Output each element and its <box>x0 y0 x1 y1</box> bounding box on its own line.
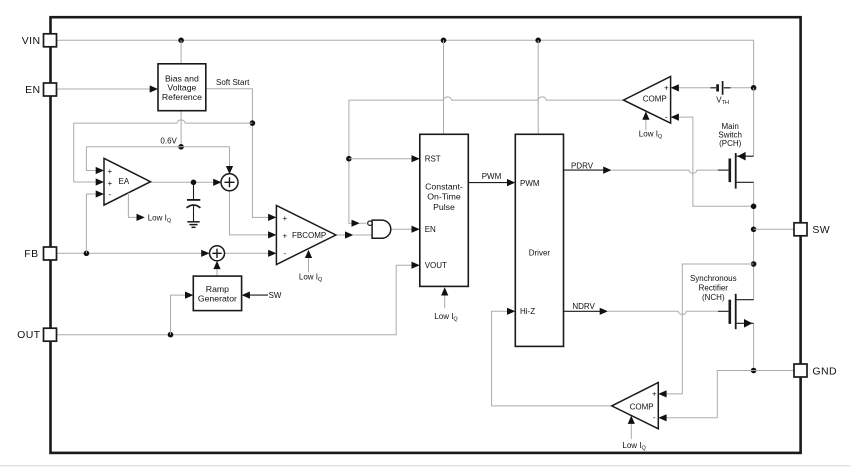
wire COMP1 output to RST and AND gate (hops over VIN drops) <box>349 97 624 227</box>
pin EN <box>25 83 56 96</box>
wire VIN rail <box>57 40 754 88</box>
label Low IQ at COMP1 <box>639 130 663 141</box>
block U3 Driver <box>515 134 563 346</box>
wire Soft Start branch to EA plus2 (hop over Bias drop) <box>74 120 253 186</box>
op-amp EA <box>104 158 151 205</box>
wire S2 input from Ramp Generator <box>213 261 220 276</box>
node GND junction <box>751 368 757 374</box>
summing node S2 <box>210 246 225 261</box>
capacitor C1 <box>187 184 201 221</box>
comparator COMP1 (top) <box>624 77 671 124</box>
pin GND <box>794 364 837 377</box>
transistor Q2 Synchronous Rectifier NCH <box>730 294 754 329</box>
svg-text:COMP: COMP <box>630 402 654 411</box>
svg-text:+: + <box>108 167 113 176</box>
wire 0.6V to EA plus1 <box>86 147 104 174</box>
wire SW stub into Ramp Generator <box>242 292 268 299</box>
svg-text:+: + <box>652 390 657 399</box>
label Main Switch (PCH) <box>718 122 742 148</box>
label PDRV <box>571 161 594 170</box>
wire SW rail upper segment <box>753 88 755 156</box>
svg-text:Generator: Generator <box>198 294 237 304</box>
wire COMP2 Low IQ stub <box>628 416 635 440</box>
svg-text:NDRV: NDRV <box>572 302 595 311</box>
wire COMP1 Low IQ stub <box>642 111 649 130</box>
pin SW <box>794 223 830 236</box>
pin FB <box>24 247 56 260</box>
svg-text:+: + <box>108 179 113 188</box>
wire SW tap to pin <box>754 228 794 230</box>
node SW sense junction <box>751 261 757 267</box>
label Synchronous Rectifier (NCH) <box>690 274 737 302</box>
page edge artifact line at bottom <box>0 465 850 467</box>
wire 0.6V to summing node S1 top <box>226 147 233 175</box>
wire Bias box bottom to 0.6V node <box>180 111 182 147</box>
wire FBCOMP Low IQ stub <box>305 250 312 273</box>
block U1 Bias and Voltage Reference <box>158 64 206 111</box>
node Soft Start junction <box>250 120 256 126</box>
svg-text:0.6V: 0.6V <box>160 136 177 145</box>
svg-text:GND: GND <box>812 365 837 377</box>
svg-text:PWM: PWM <box>482 172 502 181</box>
svg-text:FBCOMP: FBCOMP <box>292 231 326 240</box>
svg-text:OUT: OUT <box>17 329 41 341</box>
svg-text:-: - <box>284 249 287 258</box>
node 0.6V <box>178 144 184 150</box>
wire 0.6V rail <box>86 146 229 148</box>
comparator FBCOMP <box>276 205 336 264</box>
svg-text:-: - <box>653 413 656 422</box>
node PCH drain junction <box>751 204 757 210</box>
and-gate G1 with inverted input <box>368 220 391 238</box>
wire VIN to Bias box top <box>180 40 182 64</box>
wire PDRV from Driver to PCH gate (hop over COMP1 sense) <box>564 167 729 174</box>
node FB junction <box>84 251 90 257</box>
node VIN-Bias junction <box>178 38 184 44</box>
wire COMP1 minus input from SW node <box>671 114 754 207</box>
svg-text:Hi-Z: Hi-Z <box>520 307 535 316</box>
node RST junction <box>346 156 352 162</box>
label Low IQ at FBCOMP <box>299 273 323 284</box>
wire AND output to EN input of COT <box>391 226 420 233</box>
svg-text:VIN: VIN <box>22 35 41 47</box>
svg-text:COMP: COMP <box>643 95 667 104</box>
svg-text:Rectifier: Rectifier <box>699 284 729 293</box>
svg-text:PWM: PWM <box>520 179 540 188</box>
svg-text:Synchronous: Synchronous <box>690 274 737 283</box>
pin VIN <box>22 34 57 47</box>
wire EA output to S1 <box>151 179 222 186</box>
wire SW rail middle segment <box>753 182 755 299</box>
block Ramp Generator <box>193 276 241 311</box>
ground <box>187 222 199 228</box>
label Low IQ at COT <box>434 312 458 323</box>
wire NDRV from Driver to NCH gate (hop over SW sense) <box>564 308 729 315</box>
svg-text:+: + <box>283 232 288 241</box>
node VIN-Driver junction <box>535 38 541 44</box>
label Soft Start <box>216 78 250 87</box>
svg-text:(PCH): (PCH) <box>719 139 742 148</box>
svg-text:+: + <box>664 84 669 93</box>
wire SW sense to COMP2 plus <box>658 264 753 398</box>
wire VIN drop to COT box top <box>443 40 445 134</box>
svg-text:Reference: Reference <box>162 92 202 102</box>
label Low IQ at EA <box>148 213 172 224</box>
wire FBCOMP output to AND gate <box>336 231 372 238</box>
svg-text:-: - <box>109 190 112 199</box>
wire EA Low IQ stub <box>128 193 144 221</box>
label NDRV <box>572 302 595 311</box>
svg-text:Pulse: Pulse <box>433 202 455 212</box>
pin OUT <box>17 328 56 341</box>
svg-text:On-Time: On-Time <box>427 192 461 202</box>
wire COMP1 plus input through VTH battery to VIN rail <box>671 84 754 91</box>
summing node S1 <box>221 174 238 191</box>
svg-text:EN: EN <box>425 225 436 234</box>
wire GND sense to COMP2 minus <box>658 371 753 422</box>
block U2 Constant-On-Time Pulse <box>420 134 469 286</box>
wire S1 output to FBCOMP plus2 <box>230 190 277 238</box>
label 0.6V <box>160 136 177 145</box>
wire VIN drop to Driver box top <box>537 40 539 134</box>
node VTH-VIN junction <box>751 85 757 91</box>
wire RST line into COT <box>349 155 420 162</box>
wire OUT to Ramp Generator input <box>171 292 194 335</box>
wire COT Low IQ stub <box>441 287 448 308</box>
svg-text:PDRV: PDRV <box>571 161 594 170</box>
svg-text:+: + <box>283 214 288 223</box>
node VIN-COT junction <box>441 38 447 44</box>
wire OUT pin to VOUT input of COT <box>57 262 420 335</box>
wire FB pin line <box>57 250 210 257</box>
wire EN pin to Bias box <box>57 85 158 92</box>
svg-text:VOUT: VOUT <box>425 261 447 270</box>
wire SW rail lower segment <box>753 323 755 370</box>
svg-text:Driver: Driver <box>529 248 551 257</box>
svg-text:Soft Start: Soft Start <box>216 78 250 87</box>
node EA output junction <box>191 180 197 186</box>
svg-text:Constant-: Constant- <box>425 181 463 191</box>
wire FB to EA minus <box>86 190 104 253</box>
svg-text:SW: SW <box>269 291 282 300</box>
svg-text:RST: RST <box>425 155 441 164</box>
svg-text:EA: EA <box>119 177 130 186</box>
wire S2 output to FBCOMP minus <box>225 250 277 257</box>
wire Soft Start net <box>206 89 277 221</box>
node SW pin junction <box>751 227 757 233</box>
svg-text:SW: SW <box>812 224 830 236</box>
node OUT junction <box>168 332 174 338</box>
transistor Q1 Main Switch PCH <box>730 152 754 189</box>
label SW at Ramp Generator <box>269 291 282 300</box>
label PWM between blocks <box>482 172 502 181</box>
svg-text:-: - <box>665 112 668 121</box>
battery VTH <box>711 81 731 106</box>
svg-text:FB: FB <box>24 248 38 260</box>
wire GND tap to pin <box>754 370 794 372</box>
svg-text:(NCH): (NCH) <box>702 293 725 302</box>
wire PWM from COT to Driver <box>468 179 515 186</box>
svg-text:EN: EN <box>25 84 40 96</box>
comparator COMP2 (bottom) <box>612 383 659 429</box>
label Low IQ at COMP2 <box>622 441 646 452</box>
wire COMP2 output to Hi-Z input of Driver <box>492 308 612 406</box>
